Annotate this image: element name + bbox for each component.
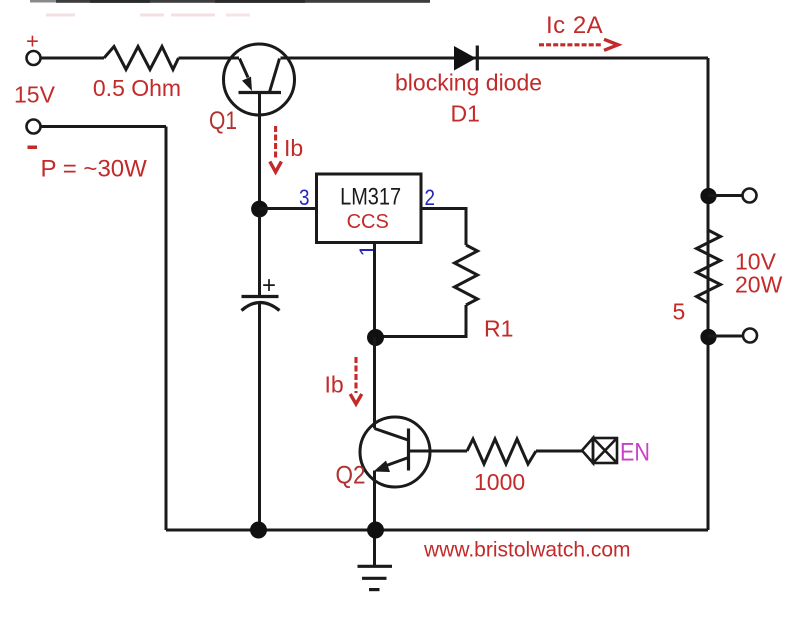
wire left rail down: [165, 127, 168, 531]
node D junction dot (Q2 emitter to rail): [367, 522, 384, 539]
ground: [358, 538, 393, 590]
wire Q2 emitter down to bottom rail: [373, 471, 376, 523]
capacitor C1: [242, 272, 280, 311]
wire LM317 pin 2 to R1: [421, 209, 466, 246]
svg-text:5: 5: [673, 299, 686, 325]
diode D1: [454, 46, 477, 71]
svg-text:Ib: Ib: [325, 372, 344, 398]
wire resistor to Q1: [179, 57, 240, 60]
resistor R1: [455, 245, 478, 305]
svg-text:D1: D1: [451, 101, 480, 127]
svg-text:LM317: LM317: [340, 184, 401, 211]
wire node A down to capacitor: [258, 215, 261, 295]
transistor Q2: [360, 417, 430, 487]
svg-text:1000: 1000: [474, 469, 525, 495]
wire negative terminal to left rail: [41, 125, 166, 128]
svg-text:EN: EN: [620, 439, 650, 467]
svg-text:2: 2: [425, 185, 436, 210]
wire node E to output terminal: [708, 194, 742, 197]
svg-text:www.bristolwatch.com: www.bristolwatch.com: [423, 539, 631, 562]
svg-text:Q2: Q2: [336, 462, 366, 490]
svg-text:15V: 15V: [14, 82, 56, 108]
current arrow Ib (Q2): [350, 357, 362, 404]
resistor 0.5 Ohm: [104, 47, 179, 70]
wire bottom rail: [166, 529, 708, 532]
resistor 5 ohm load: [697, 204, 721, 329]
svg-text:20W: 20W: [735, 272, 783, 298]
cropped title text at top edge: [30, 0, 430, 17]
wire capacitor to bottom rail: [258, 303, 261, 522]
terminal negative input: [27, 120, 41, 134]
wire resistor 1000 to EN input: [536, 450, 582, 453]
svg-text:P = ~30W: P = ~30W: [41, 156, 148, 183]
wire node B down to Q2 collector: [373, 337, 376, 429]
svg-text:+: +: [26, 29, 39, 54]
wire R1 bottom to node B: [376, 305, 466, 337]
EN input symbol: [582, 438, 617, 463]
svg-text:Ib: Ib: [284, 135, 303, 161]
wire node F to output terminal: [708, 335, 743, 338]
op-amp U1 LM317 box: [317, 174, 422, 243]
svg-text:1: 1: [355, 244, 380, 256]
terminal positive input: [27, 51, 41, 65]
svg-text:blocking diode: blocking diode: [395, 70, 542, 96]
svg-text:0.5 Ohm: 0.5 Ohm: [93, 75, 181, 101]
current arrow Ic: [539, 39, 618, 50]
label minus: [28, 146, 38, 150]
wire Q2 base to resistor 1000: [409, 450, 468, 453]
node C junction dot (capacitor to rail): [250, 522, 267, 539]
node F junction dot (lower output tap): [700, 329, 716, 345]
svg-text:Q1: Q1: [209, 107, 237, 135]
svg-text:R1: R1: [484, 316, 513, 342]
svg-text:Ic 2A: Ic 2A: [546, 12, 603, 39]
transistor Q1: [224, 44, 295, 115]
wire Q1 to diode and top rail: [281, 57, 709, 60]
wire terminal to resistor: [41, 57, 104, 60]
resistor 1000: [467, 439, 536, 464]
node B junction dot: [367, 329, 384, 346]
wire LM317 pin 1 down through node B: [373, 244, 376, 338]
node A junction dot: [251, 201, 268, 218]
wire node A to LM317 pin 3: [260, 207, 317, 210]
terminal output lower: [743, 329, 757, 343]
wire Q1 collector down to node A: [258, 93, 261, 204]
node E junction dot (upper output tap): [700, 188, 716, 204]
terminal output upper: [743, 189, 757, 203]
svg-text:3: 3: [299, 185, 310, 210]
current arrow Ib (Q1): [270, 126, 282, 172]
wire right rail down: [707, 58, 710, 530]
svg-text:CCS: CCS: [347, 211, 389, 233]
